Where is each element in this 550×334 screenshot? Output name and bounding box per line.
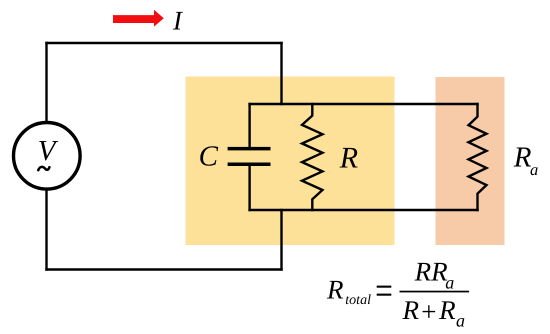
wire left upper (top wire to V source) [45,42,47,122]
label Ra [513,141,538,179]
AC tilde symbol [38,167,49,170]
formula equals sign [377,286,392,296]
svg-text:R: R [438,295,456,325]
capacitor C bottom plate [228,163,271,167]
formula numerator RRa [414,256,455,292]
svg-text:+: + [420,296,438,326]
svg-text:C: C [199,141,219,173]
svg-text:R: R [402,295,420,325]
wire top (source to main node) [45,42,282,44]
svg-text:a: a [530,160,538,179]
wire right vertical upper (top wire down to node A) [280,42,282,105]
capacitor C bottom lead [248,166,250,211]
capacitor C top plate [228,147,271,151]
node B bottom bus (C, R, Ra bottoms) [248,209,478,211]
svg-text:I: I [172,6,184,36]
highlight box yellow (C and R parallel block) [186,77,395,246]
highlight box orange (Ra block) [436,77,505,245]
node A top bus (C, R, Ra tops) [248,103,478,105]
current arrow I [113,10,164,27]
wire left lower (V source to bottom wire) [45,190,47,271]
svg-text:RR: RR [414,256,448,286]
resistor R zigzag body [302,103,323,211]
svg-text:a: a [456,310,465,330]
wire bottom (return wire) [45,268,282,270]
formula fraction bar [400,291,470,293]
wire right vertical lower (node B down to bottom wire) [280,209,282,271]
svg-text:total: total [345,293,371,308]
svg-text:R: R [326,274,344,304]
voltage source V1 (AC) [14,123,81,190]
formula denominator R plus Ra [402,295,466,330]
svg-text:R: R [339,141,358,174]
capacitor C top lead [248,103,250,147]
resistor Ra zigzag body [469,103,487,211]
svg-text:R: R [513,141,532,173]
svg-text:a: a [445,272,454,292]
formula Rtotal term [326,274,371,308]
